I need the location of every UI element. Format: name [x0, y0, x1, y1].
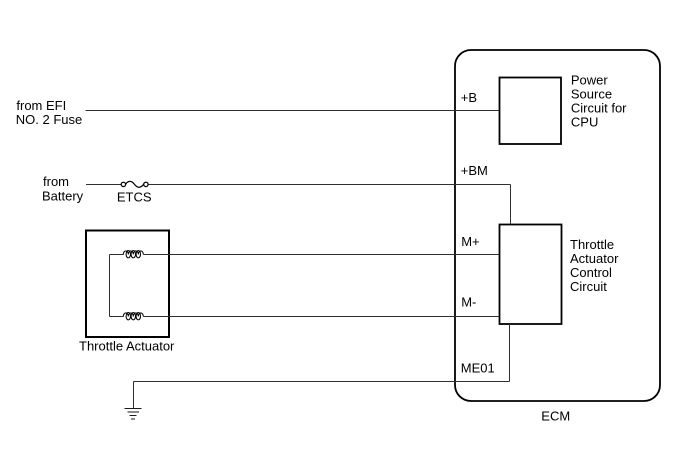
svg-text:Circuit: Circuit: [570, 279, 607, 294]
power source circuit box U1: [500, 78, 562, 145]
svg-text:Actuator: Actuator: [570, 251, 619, 266]
inductor coil L1: [123, 251, 143, 258]
throttle actuator box M1: [86, 231, 169, 338]
svg-text:ECM: ECM: [541, 409, 570, 424]
wire coil L1 left lead: [110, 254, 124, 256]
svg-text:M-: M-: [461, 294, 476, 309]
svg-text:Throttle Actuator: Throttle Actuator: [79, 339, 175, 354]
svg-text:+B: +B: [461, 90, 477, 105]
label: Throttle Actuator Control Circuit: [570, 237, 619, 294]
svg-text:ME01: ME01: [461, 360, 495, 375]
svg-text:Source: Source: [571, 87, 612, 102]
wire joining coil left leads: [109, 255, 111, 317]
svg-text:CPU: CPU: [571, 115, 598, 130]
wire ME01 vertical from control circuit: [509, 324, 511, 382]
wire coil L2 left lead: [110, 316, 124, 318]
wire fuse to +BM: [148, 184, 510, 186]
svg-text:Throttle: Throttle: [570, 237, 614, 252]
svg-text:Circuit for: Circuit for: [571, 101, 627, 116]
ECM outline box: [455, 50, 660, 401]
wire from Battery to fuse ETCS: [86, 184, 121, 186]
svg-text:+BM: +BM: [461, 163, 488, 178]
wire M- from actuator coil to control circuit: [143, 316, 499, 318]
wire +BM vertical drop to control circuit: [510, 185, 512, 225]
ground symbol: [125, 409, 142, 420]
wire M+ from actuator coil to control circuit: [143, 254, 499, 256]
svg-text:NO. 2 Fuse: NO. 2 Fuse: [16, 112, 82, 127]
wire from EFI NO.2 fuse to +B: [86, 110, 500, 112]
label: Power Source Circuit for CPU: [571, 73, 627, 130]
svg-text:from EFI: from EFI: [16, 98, 66, 113]
svg-text:Battery: Battery: [42, 188, 84, 203]
wire ground drop: [133, 382, 135, 409]
label: from Battery: [42, 174, 84, 203]
svg-text:ETCS: ETCS: [117, 189, 152, 204]
wire ME01 horizontal to ground: [134, 381, 510, 383]
svg-text:M+: M+: [461, 234, 479, 249]
svg-text:Control: Control: [570, 265, 612, 280]
svg-text:from: from: [43, 174, 69, 189]
throttle actuator control circuit box U2: [500, 225, 562, 325]
label: from EFI NO. 2 Fuse: [16, 98, 82, 127]
fuse ETCS: [121, 181, 148, 187]
inductor coil L2: [123, 313, 143, 320]
svg-text:Power: Power: [571, 73, 609, 88]
